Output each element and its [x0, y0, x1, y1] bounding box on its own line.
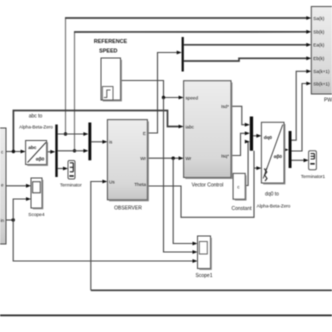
wire Constant to mux5 in3 — [245, 142, 248, 186]
svg-text:Terminator: Terminator — [60, 183, 82, 188]
svg-text:Isd*: Isd* — [221, 104, 229, 109]
wire Wm branch down to Scope1 in3 — [13, 220, 194, 261]
block OBSERVER subsystem — [107, 120, 148, 212]
arrowhead Scope4 in1 — [26, 184, 31, 188]
svg-text:in: in — [1, 218, 5, 223]
wire mux2 output to observer is input — [91, 141, 104, 143]
wire Us from right edge bottom feedback into observer Us input — [91, 289, 332, 291]
wire Wm branch up to Scope4 in2 — [13, 199, 27, 220]
svg-text:speed: speed — [186, 95, 199, 100]
svg-text:Scope4: Scope4 — [28, 212, 45, 218]
mux M2 into observer — [88, 123, 91, 161]
wire Sa(k+1) from demux3 out1 to PWM input 5 — [292, 71, 308, 140]
arrowhead mux M5 in1 — [245, 123, 250, 127]
svg-text:Isq*: Isq* — [221, 153, 229, 158]
wire Isd* to mux5 in1 — [231, 106, 247, 124]
wire Eb(k) from demux EMF out2 to PWM input 4 — [184, 58, 308, 61]
arrowhead PWM port Sb(k+1) — [306, 82, 311, 86]
svg-text:e: e — [1, 182, 4, 187]
svg-text:dq0 to: dq0 to — [265, 192, 279, 198]
arrowhead observer is port — [102, 140, 107, 144]
svg-text:αβ0: αβ0 — [36, 156, 45, 162]
arrowhead into Terminator1 — [304, 158, 309, 162]
wire Wr branch down to Scope1 in1 — [173, 158, 194, 243]
block Terminator1 — [301, 151, 326, 179]
wire reference speed to Vector Control speed input — [121, 81, 181, 98]
svg-text:Sb(k): Sb(k) — [313, 29, 324, 34]
arrowhead Scope1 in1 — [193, 242, 198, 246]
arrowhead PWM port Ea(k) — [306, 43, 311, 47]
demux D1 alpha-beta-zero splitter — [55, 125, 57, 178]
arrowhead mux M2 in2 — [83, 149, 88, 153]
wire Te from motor block to Scope4 in1 — [6, 185, 27, 187]
svg-text:Theta: Theta — [134, 182, 146, 187]
arrowhead PWM port Sa(k) — [306, 16, 311, 20]
svg-text:REFERENCE: REFERENCE — [94, 39, 128, 45]
arrowhead PWM port Sa(k+1) — [306, 69, 311, 73]
arrowhead dq0 block angle input — [256, 166, 261, 170]
wire iabc from motor block to Clarke and up to Vector Control iabc — [6, 151, 22, 153]
svg-text:αβ0: αβ0 — [274, 154, 283, 159]
block Scope1 — [196, 236, 213, 279]
svg-text:Vector Control: Vector Control — [192, 183, 224, 189]
wire E output of observer to demux EMF — [147, 53, 178, 134]
wire demux3 out3 to Terminator1 — [292, 159, 306, 161]
svg-text:Wr: Wr — [186, 156, 192, 161]
node junction Wr — [172, 157, 175, 160]
arrowhead into demux D4 — [177, 51, 182, 55]
svg-text:Sb(k+1): Sb(k+1) — [313, 81, 330, 86]
wire Wm from motor block junction — [6, 219, 13, 221]
demux D3 switching signals — [289, 131, 292, 168]
svg-text:abc: abc — [28, 145, 37, 151]
arrowhead mux M5 in3 — [245, 140, 250, 144]
arrowhead dq0 block signal input — [256, 134, 261, 138]
arrowhead Scope1 in3 — [193, 259, 198, 263]
block Terminator — [60, 161, 82, 188]
arrowhead into demux D1 — [50, 150, 55, 154]
arrowhead into demux D3 — [284, 148, 289, 152]
wire Sb(k+1) from demux3 out2 to PWM input 6 — [292, 84, 308, 152]
block Scope4 — [28, 178, 45, 218]
mux M5 Isd Isq zero — [250, 117, 253, 151]
arrowhead Scope4 in2 — [26, 197, 31, 201]
svg-text:Alpha-Beta-Zero: Alpha-Beta-Zero — [257, 204, 291, 209]
svg-text:Wr: Wr — [140, 156, 146, 161]
arrowhead Vector Control speed port — [179, 96, 184, 100]
svg-text:Alpha-Beta-Zero: Alpha-Beta-Zero — [19, 125, 53, 130]
node junction Wm — [12, 218, 15, 221]
svg-text:SPEED: SPEED — [99, 49, 117, 55]
svg-text:Us: Us — [109, 179, 115, 184]
node junction iabc — [12, 150, 15, 153]
block PWM inverter cut at right edge — [311, 7, 332, 104]
wire mux5 output to dq0 input — [253, 135, 258, 137]
svg-text:Sa(k): Sa(k) — [313, 16, 324, 21]
node junction on alpha wire — [64, 132, 67, 135]
wire dq0 output to demux3 — [284, 149, 285, 151]
wire Wr observer output to Vector Control Wr input — [147, 157, 180, 159]
arrowhead PWM port Sb(k) — [306, 30, 311, 34]
block dq0 to Alpha-Beta-Zero inverse Park — [257, 122, 291, 208]
svg-text:OBSERVER: OBSERVER — [114, 206, 142, 212]
wire Theta observer output routed below to dq0 angle input — [147, 151, 254, 218]
figure caption separator line — [0, 314, 332, 316]
motor subsystem block cut at left edge — [0, 128, 6, 244]
wire demux1 out3 to Terminator — [58, 168, 65, 170]
arrowhead into Terminator — [63, 167, 68, 171]
svg-text:Terminator1: Terminator1 — [301, 174, 326, 179]
wire speed ref branch down to Scope1 in2 — [164, 98, 195, 253]
arrowhead Scope1 in2 — [193, 250, 198, 254]
svg-text:Constant: Constant — [231, 206, 252, 212]
block REFERENCE SPEED signal source — [94, 39, 128, 100]
arrowhead observer Us port — [102, 180, 107, 184]
svg-text:Ea(k): Ea(k) — [313, 43, 324, 48]
arrowhead Vector Control Wr port — [179, 156, 184, 160]
block Constant — [231, 173, 252, 212]
node junction speed ref — [162, 96, 165, 99]
arrowhead into Clarke block — [21, 150, 26, 154]
wire Sa(k) net from demux1 out1 up and right to PWM input 1 — [65, 18, 67, 134]
block Vector Control subsystem — [184, 81, 232, 189]
arrowhead mux M2 in1 — [83, 132, 88, 136]
svg-text:abc to: abc to — [29, 114, 43, 120]
svg-text:Scope1: Scope1 — [196, 273, 213, 279]
wire Ea(k) from demux EMF out1 to PWM input 3 — [184, 44, 308, 46]
demux D4 EMF splitter — [182, 37, 184, 72]
node junction on beta wire — [73, 149, 76, 152]
svg-text:Sa(k+1): Sa(k+1) — [313, 69, 330, 74]
wire Isq* to mux5 in2 — [231, 133, 247, 155]
arrowhead Vector Control iabc port — [179, 125, 184, 129]
wire Clarke output to demux1 — [47, 151, 52, 153]
arrowhead PWM port Eb(k) — [306, 56, 311, 60]
svg-text:Eb(k): Eb(k) — [313, 56, 324, 61]
svg-text:dq0: dq0 — [264, 135, 273, 140]
svg-text:E: E — [143, 131, 146, 136]
wire Sb(k) net from demux1 out2 up and right to PWM input 2 — [74, 32, 76, 151]
arrowhead mux M5 in2 — [245, 131, 250, 135]
svg-text:iabc: iabc — [186, 124, 195, 129]
wire demux1 out1 to mux2 in1 — [58, 133, 85, 135]
block Clarke abc to Alpha-Beta-Zero — [19, 114, 53, 166]
wire demux1 out2 to mux2 in2 — [58, 150, 85, 152]
svg-text:PW: PW — [324, 98, 332, 104]
